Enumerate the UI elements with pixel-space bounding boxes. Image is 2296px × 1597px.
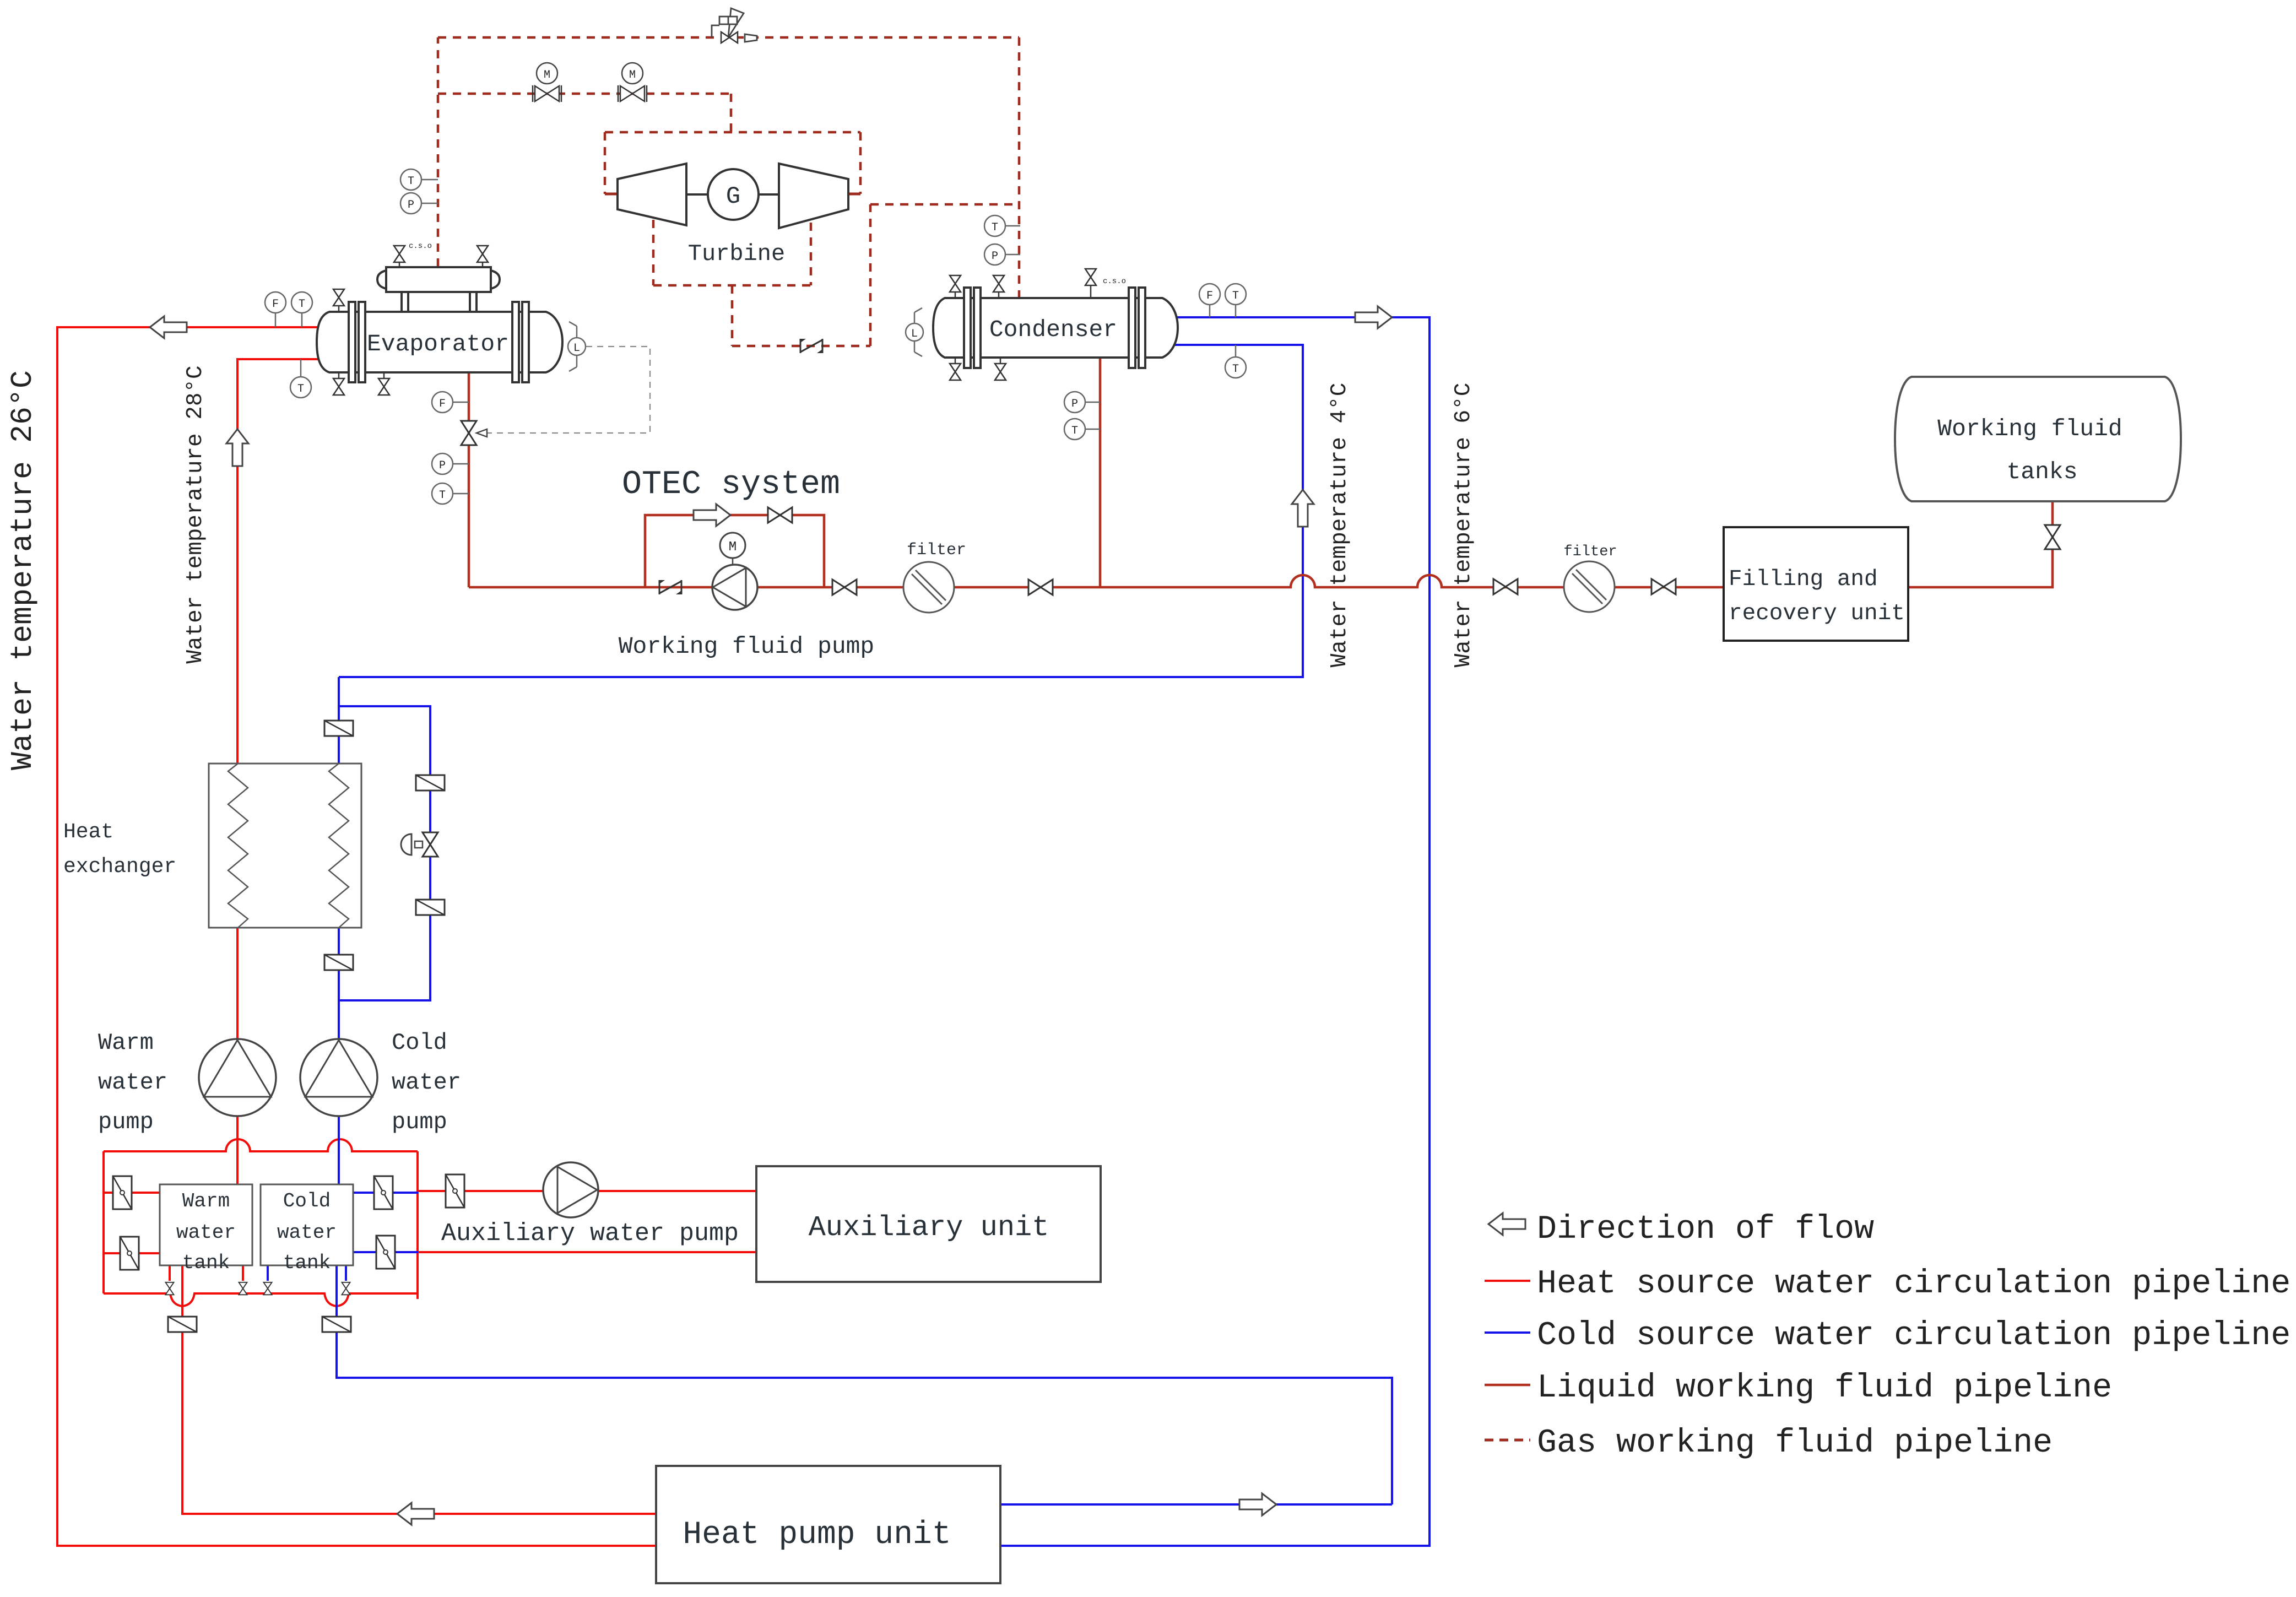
svg-text:P: P [1071, 398, 1078, 410]
svg-text:Auxiliary water pump: Auxiliary water pump [441, 1220, 739, 1248]
svg-text:T: T [439, 489, 446, 502]
svg-text:P: P [992, 250, 998, 263]
svg-text:L: L [573, 342, 580, 355]
svg-text:F: F [272, 298, 279, 311]
svg-text:Water temperature 6°C: Water temperature 6°C [1451, 383, 1476, 668]
svg-text:tank: tank [283, 1252, 331, 1274]
svg-text:P: P [408, 199, 414, 212]
svg-text:Water temperature 26°C: Water temperature 26°C [6, 370, 40, 770]
svg-text:c.s.o: c.s.o [1103, 277, 1126, 286]
svg-text:Cold: Cold [283, 1190, 331, 1212]
svg-text:Heat source water circulation: Heat source water circulation pipeline [1537, 1265, 2290, 1303]
svg-text:Direction of flow: Direction of flow [1537, 1211, 1874, 1248]
svg-text:G: G [726, 183, 740, 210]
svg-text:exchanger: exchanger [63, 855, 176, 879]
svg-text:P: P [439, 459, 446, 472]
svg-text:F: F [439, 398, 446, 410]
svg-text:Gas working fluid pipeline: Gas working fluid pipeline [1537, 1425, 2053, 1462]
svg-text:Warm: Warm [182, 1190, 230, 1212]
svg-text:pump: pump [98, 1109, 154, 1135]
svg-text:water: water [277, 1221, 337, 1244]
svg-text:tank: tank [182, 1252, 230, 1274]
svg-text:Auxiliary unit: Auxiliary unit [809, 1211, 1049, 1244]
svg-text:Liquid working fluid pipeline: Liquid working fluid pipeline [1537, 1369, 2112, 1407]
svg-text:M: M [544, 69, 550, 82]
svg-text:M: M [729, 540, 737, 555]
svg-text:Turbine: Turbine [688, 241, 785, 267]
svg-text:Water temperature 28°C: Water temperature 28°C [183, 365, 208, 663]
svg-text:F: F [1206, 290, 1213, 302]
svg-text:tanks: tanks [2006, 458, 2077, 485]
svg-text:water: water [176, 1221, 236, 1244]
svg-text:filter: filter [1563, 544, 1617, 560]
svg-text:filter: filter [907, 541, 966, 560]
svg-text:Evaporator: Evaporator [367, 331, 509, 358]
svg-text:T: T [299, 298, 305, 311]
svg-text:T: T [297, 383, 304, 396]
svg-text:Working fluid: Working fluid [1937, 415, 2122, 442]
svg-text:Cold source water circulation: Cold source water circulation pipeline [1537, 1317, 2290, 1355]
svg-text:Heat pump unit: Heat pump unit [683, 1517, 951, 1553]
svg-text:water: water [392, 1069, 461, 1096]
svg-text:water: water [98, 1069, 167, 1096]
svg-text:Condenser: Condenser [989, 316, 1117, 343]
svg-text:Working fluid pump: Working fluid pump [619, 633, 874, 660]
svg-text:T: T [408, 175, 414, 188]
svg-text:OTEC system: OTEC system [622, 466, 840, 504]
svg-text:T: T [1232, 290, 1239, 302]
svg-text:Filling and: Filling and [1729, 567, 1878, 592]
svg-text:Water temperature 4°C: Water temperature 4°C [1327, 383, 1352, 668]
svg-text:c.s.o: c.s.o [409, 242, 432, 251]
svg-text:Cold: Cold [392, 1030, 447, 1056]
svg-text:L: L [911, 328, 918, 340]
svg-text:Heat: Heat [63, 820, 113, 844]
svg-text:Warm: Warm [98, 1030, 154, 1056]
svg-text:T: T [992, 221, 998, 234]
svg-text:T: T [1232, 363, 1239, 376]
svg-text:T: T [1071, 425, 1078, 437]
svg-text:pump: pump [392, 1109, 447, 1135]
svg-text:recovery unit: recovery unit [1729, 601, 1905, 626]
svg-text:M: M [629, 69, 636, 82]
